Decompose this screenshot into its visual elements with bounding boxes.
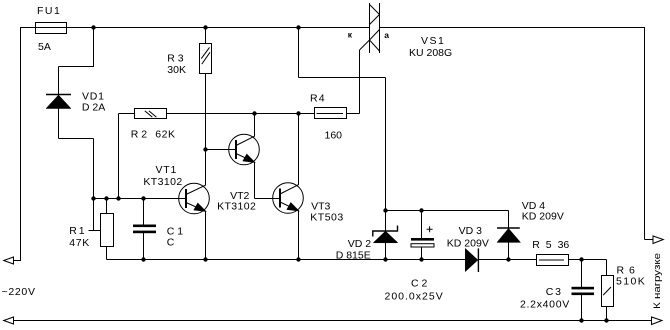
wire VT3 collector up (298, 114, 300, 186)
wire R1 bottom pin (106, 247, 108, 260)
svg-text:FU1: FU1 (37, 5, 61, 17)
svg-text:KT503: KT503 (310, 211, 343, 223)
wire VT2 emitter to VT3 base (255, 162, 281, 199)
arrow left top (~220V) (4, 257, 14, 264)
triac VS1 (360, 3, 380, 53)
svg-text:R4: R4 (310, 92, 326, 104)
wire top link VD2 to VD4 (386, 210, 509, 212)
wire VT1 emitter down (205, 211, 207, 260)
svg-text:36: 36 (558, 239, 570, 251)
wire emitter rail to VD3 (107, 259, 466, 261)
wire base node down to R1 wiper (89, 199, 101, 231)
junction dot VT2 base (203, 147, 207, 151)
svg-text:к: к (348, 29, 353, 39)
diode VD1 (46, 95, 71, 109)
junction dots base wire (91, 196, 145, 200)
svg-text:R 3: R 3 (167, 52, 184, 64)
wire C3 stems (581, 260, 583, 321)
svg-text:R1: R1 (69, 225, 86, 237)
arrow left bottom (~220V) (4, 317, 14, 324)
wire VD2 top stem (385, 211, 387, 232)
wire R1 top pin (106, 199, 108, 214)
svg-text:C 2: C 2 (411, 277, 428, 289)
capacitor C1 (133, 199, 156, 260)
wire R6 bottom pin (606, 307, 608, 321)
diode VD3 (465, 248, 478, 272)
svg-text:2.2x400V: 2.2x400V (520, 299, 570, 311)
wire top rail left + left vertical to ~220V arrow (13, 28, 370, 262)
svg-text:D 815E: D 815E (336, 249, 371, 261)
wire R4 right to triac gate vertical (347, 50, 360, 114)
junction dots top rail (91, 25, 300, 29)
svg-text:~220V: ~220V (2, 286, 36, 298)
capacitor C3 (572, 287, 595, 295)
svg-text:а: а (384, 30, 389, 40)
resistor R1 (101, 214, 114, 247)
svg-text:KD 209V: KD 209V (522, 211, 564, 223)
svg-text:VT1: VT1 (156, 164, 178, 176)
fuse FU1 (36, 23, 67, 34)
svg-text:D 2A: D 2A (82, 101, 105, 113)
wire R3 bottom / VT1 collector line (205, 74, 207, 186)
capacitor C2 polarized (411, 226, 434, 247)
svg-text:VD 3: VD 3 (459, 225, 483, 237)
wire VD3 cathode to R5 (479, 259, 537, 261)
svg-text:510K: 510K (616, 276, 646, 288)
wire VT2 collector up (254, 114, 256, 137)
resistor R3 (200, 44, 212, 74)
wire R5 right to R6 corner (569, 260, 607, 276)
wire R2 right to R4 (167, 113, 315, 115)
resistor R4 (315, 108, 347, 119)
svg-text:160: 160 (325, 130, 343, 142)
svg-text:KD 209V: KD 209V (447, 238, 489, 250)
svg-text:C3: C3 (546, 286, 563, 298)
svg-text:C: C (167, 236, 175, 248)
wire snubber feed from top rail (299, 28, 386, 211)
svg-text:R 6: R 6 (617, 265, 636, 277)
svg-text:200.0x25V: 200.0x25V (385, 291, 444, 303)
wire bottom rail (13, 320, 652, 322)
svg-text:KU 208G: KU 208G (409, 47, 452, 59)
wire C2 stems (421, 211, 423, 260)
svg-text:К нагрузке: К нагрузке (652, 253, 662, 309)
wire top rail right from triac to load corner (380, 27, 654, 240)
svg-text:VD 2: VD 2 (348, 238, 372, 250)
arrow right bottom (to load) (652, 317, 663, 325)
wire R2 left pin down to base node (119, 114, 135, 199)
svg-text:R 5: R 5 (532, 239, 553, 251)
svg-text:62K: 62K (155, 129, 175, 141)
wire VD1 zigzag upper (59, 28, 95, 95)
diode VD4 (497, 228, 521, 242)
transistor VT2 (229, 134, 260, 165)
junction dots emitter rail (141, 257, 583, 261)
resistor R6 (602, 276, 614, 307)
junction dots R2-R4 wire (252, 111, 300, 115)
wire VD2 bottom stem (385, 243, 387, 260)
resistor R5 (537, 255, 569, 266)
svg-text:5A: 5A (38, 41, 51, 53)
wire R3 top pin (205, 28, 207, 44)
wire VD1 zigzag lower to base node (59, 109, 94, 199)
junction dots bottom rail (579, 318, 608, 322)
transistor VT1 (179, 183, 210, 214)
wire VT1 base (94, 198, 187, 200)
wire VT2 base branch (206, 149, 237, 151)
junction dots VD2-VD4 top link (383, 208, 423, 212)
svg-text:VS1: VS1 (421, 35, 445, 47)
arrow right top (to load) (653, 236, 663, 244)
zener VD2 (373, 226, 398, 243)
svg-text:KT3102: KT3102 (143, 176, 182, 188)
svg-text:30K: 30K (167, 64, 186, 76)
transistor VT3 (273, 183, 304, 214)
svg-text:47K: 47K (69, 237, 90, 249)
wire VT3 emitter down (298, 211, 300, 260)
svg-text:R 2: R 2 (131, 129, 148, 141)
svg-text:KT3102: KT3102 (217, 200, 256, 212)
wire VD4 stems (508, 211, 510, 260)
resistor R2 (135, 109, 167, 119)
